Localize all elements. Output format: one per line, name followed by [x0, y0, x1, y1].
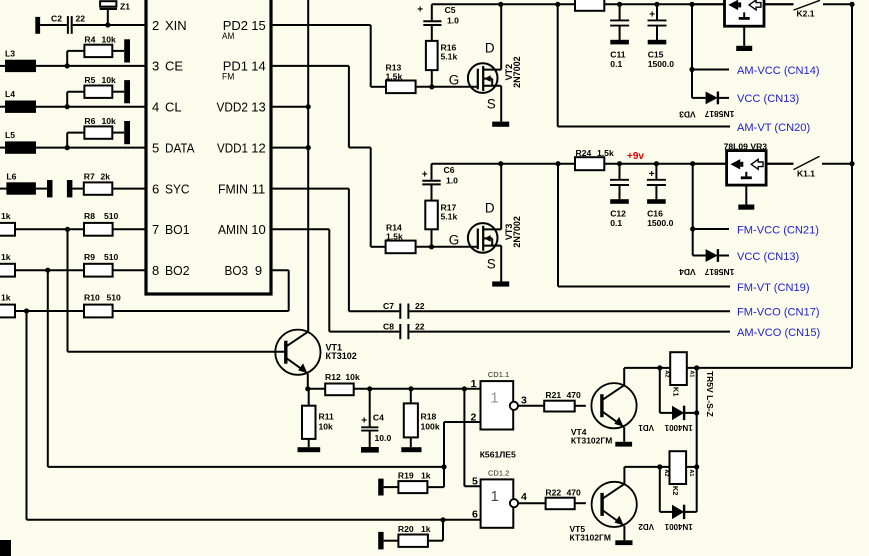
svg-text:15: 15 [251, 18, 265, 33]
connector plate (R20) [378, 532, 383, 550]
svg-text:L3: L3 [5, 48, 15, 58]
resistor R7 [84, 182, 113, 194]
svg-text:КТ3102: КТ3102 [326, 351, 357, 361]
wire K2 coil row right [686, 466, 697, 468]
svg-text:1.0: 1.0 [446, 176, 458, 186]
wire R10 row left [15, 310, 84, 312]
wire pin 2 lead [444, 421, 481, 423]
node rail/AM-VT tap [555, 2, 560, 7]
node R12/R18 node [408, 386, 413, 391]
svg-text:CD1.2: CD1.2 [488, 468, 509, 477]
wire gate 4 output [518, 502, 546, 504]
svg-text:1k: 1k [1, 211, 11, 221]
connector plate (R6) [124, 121, 130, 144]
svg-text:КТ3102ГМ: КТ3102ГМ [571, 435, 612, 445]
ground VR2 ground [736, 46, 752, 51]
svg-text:+: + [361, 415, 367, 426]
svg-text:510: 510 [104, 211, 119, 221]
capacitor C15 [648, 19, 667, 21]
resistor R9 [84, 264, 113, 277]
svg-text:Z1: Z1 [120, 2, 130, 12]
svg-text:0.1: 0.1 [610, 59, 622, 69]
resistor R8 [84, 223, 113, 236]
node Z1/XIN junction [105, 22, 110, 27]
wire C12 top lead [619, 164, 621, 180]
connector plate (R4) [124, 39, 130, 62]
svg-text:1.5k: 1.5k [386, 72, 403, 82]
svg-text:2: 2 [152, 18, 159, 33]
svg-text:R7: R7 [84, 172, 95, 182]
svg-text:1: 1 [490, 488, 498, 505]
wire R18 top lead [410, 389, 412, 404]
wire C2 to pin 2 XIN [73, 24, 146, 26]
resistor R14 [386, 241, 416, 254]
svg-text:5.1k: 5.1k [441, 212, 458, 222]
svg-text:R24: R24 [576, 148, 592, 158]
svg-text:D: D [485, 41, 495, 56]
wire R9 to pin 8 BO2 [113, 269, 146, 271]
svg-text:R4: R4 [84, 34, 95, 44]
svg-text:9: 9 [255, 263, 262, 278]
wire C6 to FM rail [431, 164, 433, 180]
wire K1.1 to right rail [822, 163, 852, 165]
diode VD3 (1N5817) [706, 92, 718, 105]
wire L6 to C plate [36, 188, 47, 190]
wire L6 lead-in [0, 188, 8, 190]
wire FM-VCC branch vertical [692, 164, 694, 256]
svg-text:1.5k: 1.5k [597, 148, 614, 158]
wire VD2 cathode lead [684, 511, 697, 513]
ground C12 ground [610, 199, 629, 204]
node rail/C12 tap [617, 161, 622, 166]
svg-text:1.0: 1.0 [447, 16, 459, 26]
svg-text:R20: R20 [398, 524, 414, 534]
svg-text:VDD2: VDD2 [217, 100, 249, 115]
wire C15 top lead [656, 4, 658, 20]
node K2 right node [694, 464, 699, 469]
wire PD1 jog [349, 147, 371, 149]
wire R5 right lead [112, 91, 124, 93]
node K1 right node [694, 365, 699, 370]
svg-text:S: S [487, 97, 496, 112]
svg-text:1.5k: 1.5k [386, 232, 403, 242]
node R12/C4 node [367, 386, 372, 391]
svg-text:SYC: SYC [165, 181, 190, 196]
resistor R12 [325, 384, 354, 396]
crystal Z1 [100, 1, 116, 6]
wire VT4 collector lead [623, 368, 625, 385]
svg-text:D: D [485, 200, 495, 215]
svg-text:1k: 1k [421, 524, 431, 534]
svg-text:3: 3 [521, 395, 527, 407]
node pin6/R20 node [440, 517, 445, 522]
svg-text:C12: C12 [610, 209, 626, 219]
wire VT4 emitter lead [623, 427, 625, 442]
wire L5 to pin [36, 147, 146, 149]
wire pin 14 PD1 out [271, 65, 349, 67]
wire R10 feed down [26, 311, 28, 520]
wire VD3 cathode lead [719, 97, 729, 99]
wire VT3 source [500, 246, 502, 282]
resistor R20 [398, 535, 428, 547]
wire VT3 drain [500, 164, 502, 230]
svg-text:C6: C6 [444, 165, 455, 175]
wire right supply rail [851, 4, 853, 368]
wire VR3 out to switch [766, 163, 793, 165]
switch contact K2.1 [794, 0, 821, 10]
wire PD2 to R13 [371, 86, 386, 88]
connector plate (R5) [124, 80, 130, 103]
svg-text:C7: C7 [383, 301, 394, 311]
resistor R5 [84, 86, 112, 98]
svg-text:C15: C15 [648, 49, 664, 59]
wire VD1 anode lead [660, 412, 672, 414]
svg-text:R11: R11 [319, 412, 335, 422]
wire R16 bottom lead [431, 70, 433, 87]
wire FM-VCC lead [693, 228, 729, 230]
wire C5 to AM rail [431, 4, 433, 20]
inductor L6 [6, 182, 36, 194]
wire K1 coil row left [624, 367, 670, 369]
svg-text:C2: C2 [51, 14, 62, 24]
CD1.2 output bubble [510, 499, 518, 507]
svg-text:6: 6 [472, 509, 478, 521]
svg-text:2N7002: 2N7002 [512, 216, 522, 248]
wire VD2 left drop [659, 467, 661, 512]
svg-text:K1: K1 [672, 387, 681, 397]
transistor VT4 (КТ3102ГМ NPN) [591, 383, 636, 428]
inductor L4 [5, 101, 36, 113]
svg-text:1N4001: 1N4001 [664, 423, 693, 432]
ground VR3 ground [738, 205, 754, 210]
svg-text:100k: 100k [421, 422, 440, 432]
wire L4 to pin [36, 106, 146, 108]
svg-text:510: 510 [104, 252, 119, 262]
wire R21 to VT4 base [575, 405, 586, 407]
resistor R6 [84, 126, 112, 138]
wire R4 tap vertical [66, 51, 68, 66]
wire C11 bottom lead [619, 26, 621, 41]
svg-text:R12: R12 [325, 372, 341, 382]
svg-text:DATA: DATA [165, 140, 195, 155]
svg-text:AM-VT (CN20): AM-VT (CN20) [737, 122, 810, 134]
svg-text:R8: R8 [84, 211, 95, 221]
svg-text:C11: C11 [610, 49, 626, 59]
svg-text:1: 1 [490, 390, 498, 407]
wire FM-VT lead [558, 286, 730, 288]
capacitor C16 [647, 179, 666, 181]
wire AM-VT branch vertical [557, 4, 559, 126]
switch contact K1.1 [794, 156, 820, 169]
svg-text:5.1k: 5.1k [441, 52, 458, 62]
node rail/VT2 drain [498, 2, 503, 7]
diode VD2 (1N4001) [672, 505, 684, 519]
ground C11 ground [610, 40, 629, 45]
wire C plate to R7 [72, 188, 83, 190]
svg-text:C5: C5 [445, 5, 456, 15]
svg-text:10.0: 10.0 [375, 433, 392, 443]
svg-text:K2: K2 [671, 486, 680, 496]
resistor R10 [84, 305, 113, 318]
wire R9 feed to gate pin2 [48, 466, 443, 468]
wire PD1 to R14 [371, 246, 386, 248]
svg-text:3: 3 [152, 59, 159, 74]
resistor R22 [546, 498, 575, 510]
wire L3 to pin [36, 65, 146, 67]
svg-text:L4: L4 [5, 89, 15, 99]
svg-text:CD1.1: CD1.1 [488, 370, 509, 379]
svg-text:VD3: VD3 [679, 110, 696, 120]
svg-text:470: 470 [567, 488, 582, 498]
svg-text:470: 470 [567, 390, 582, 400]
svg-text:VDD1: VDD1 [217, 140, 248, 155]
logic gate CD1.1 (inverter) [481, 381, 514, 429]
wire R16 top lead (C5) [431, 26, 433, 41]
wire R11 bottom lead [308, 439, 310, 447]
svg-text:14: 14 [251, 59, 265, 74]
resistor R17 [425, 201, 438, 230]
svg-text:+9v: +9v [627, 151, 644, 162]
node R6 tap junction [65, 145, 70, 150]
svg-text:A2: A2 [664, 370, 670, 377]
wire R11 top lead [308, 389, 310, 406]
wire R6 left lead [67, 132, 84, 134]
wire VR2 out to switch [764, 3, 794, 5]
svg-text:1k: 1k [1, 252, 11, 262]
wire C4 bottom lead [369, 431, 371, 448]
svg-text:11: 11 [252, 181, 266, 196]
svg-text:C16: C16 [647, 209, 663, 219]
svg-text:FM: FM [222, 72, 234, 82]
node rail/VT3 drain [498, 161, 503, 166]
wire pin 12 VDD1 stub [271, 147, 308, 149]
svg-text:C8: C8 [383, 322, 394, 332]
svg-text:6: 6 [152, 181, 159, 196]
resistor R19 [398, 481, 427, 493]
wire Z1 to XIN node [107, 9, 109, 25]
wire FM +9v rail (right) [604, 163, 793, 165]
wire VD4 cathode lead [719, 255, 729, 257]
node R13/R16 junction [429, 84, 434, 89]
svg-text:+: + [422, 170, 428, 181]
svg-text:1N4001: 1N4001 [664, 522, 693, 531]
wire L4 row lead-in [0, 106, 7, 108]
transistor VT5 (КТ3102ГМ NPN) [592, 482, 637, 527]
wire C8 to AM-VCO label [409, 331, 730, 333]
svg-text:4: 4 [521, 491, 527, 503]
wire R4 left lead [67, 50, 84, 52]
wire R22 to VT5 base [575, 502, 586, 504]
svg-text:S: S [487, 256, 496, 271]
svg-text:13: 13 [251, 100, 265, 115]
svg-text:R18: R18 [421, 412, 437, 422]
ground VT3 source ground [492, 281, 509, 286]
ground VT2 source ground [492, 122, 509, 127]
svg-text:AM: AM [222, 31, 234, 41]
resistor R18 [404, 403, 418, 437]
wire VDD vertical to VT1 collector [307, 0, 309, 332]
resistor R8L (edge, partial) [0, 223, 15, 236]
wire rail into VR3 [693, 163, 727, 165]
svg-text:BO3: BO3 [225, 263, 249, 278]
node AM-VCC node [689, 67, 694, 72]
node VT1 emitter/R12/R11 node [305, 386, 310, 391]
node VDD1 junction [306, 145, 311, 150]
svg-text:A2: A2 [663, 469, 669, 476]
svg-text:R19: R19 [398, 471, 414, 481]
svg-text:L5: L5 [5, 130, 15, 140]
wire R18 bottom lead [410, 437, 412, 447]
inductor L3 [5, 60, 36, 72]
capacitor C11 [610, 19, 629, 21]
wire C12 bottom lead [619, 185, 621, 200]
svg-text:1k: 1k [1, 293, 11, 303]
wire VD3 anode lead [692, 97, 706, 99]
svg-text:1500.0: 1500.0 [648, 59, 675, 69]
wire R4 right lead [112, 50, 124, 52]
wire R8 to pin 7 BO1 [113, 228, 146, 230]
wire VD4 anode lead [693, 255, 706, 257]
wire VT1 emitter lead [307, 374, 309, 389]
svg-text:VD2: VD2 [638, 522, 654, 531]
svg-text:K2.1: K2.1 [797, 9, 815, 19]
wire R17 bottom lead [431, 229, 433, 247]
wire K relay right bus [696, 368, 698, 512]
ground C15 ground [648, 40, 667, 45]
wire FM-VT branch vertical [557, 164, 559, 287]
svg-text:12: 12 [251, 140, 265, 155]
capacitor C3 (plate pair) [47, 180, 53, 197]
wire R6 tap vertical [66, 133, 68, 148]
wire R17 top lead (C6) [431, 185, 433, 201]
wire AMIN to C8 [329, 331, 399, 333]
wire VD2 anode lead [660, 511, 672, 513]
node R10 branch junction [24, 308, 29, 313]
wire AM +9v rail (left) [432, 3, 575, 5]
wire VT1 base horizontal [68, 351, 286, 353]
node rail/C16 tap [654, 161, 659, 166]
resistor R4 [84, 45, 112, 57]
transistor VT3 (2N7002 N-MOSFET) [468, 223, 498, 253]
svg-text:L6: L6 [6, 172, 16, 182]
resistor R16 [426, 41, 438, 70]
svg-text:1N5817: 1N5817 [704, 267, 734, 277]
svg-text:R9: R9 [84, 252, 95, 262]
voltage regulator VR3 78L09 [727, 151, 767, 186]
wire K2 coil row left [624, 466, 669, 468]
inductor (bottom-left, partial) [0, 540, 11, 556]
svg-text:FM-VT (CN19): FM-VT (CN19) [737, 282, 810, 294]
node rail/C15 tap [654, 2, 659, 7]
svg-text:FM-VCO (CN17): FM-VCO (CN17) [737, 307, 820, 319]
resistor R24 [575, 157, 604, 170]
wire pin 10 AMIN out [271, 228, 329, 230]
wire PD1 corner down [348, 66, 350, 148]
wire R12 output row [354, 388, 481, 390]
wire R10 feed to gate pin6 [27, 519, 481, 521]
svg-text:10k: 10k [102, 116, 117, 126]
wire R8 feed down to VT1 base [67, 229, 69, 351]
svg-text:A1: A1 [689, 370, 695, 377]
node VDD2 junction [306, 104, 311, 109]
ground VT4 emitter ground [615, 442, 632, 447]
wire AMIN corner down [328, 229, 330, 331]
capacitor C12 [610, 179, 629, 181]
svg-text:10k: 10k [102, 75, 117, 85]
svg-text:R6: R6 [84, 116, 95, 126]
svg-text:510: 510 [107, 293, 122, 303]
wire VR3 ground lead [745, 185, 747, 205]
connector plate (XIN input) [35, 17, 40, 34]
svg-text:1: 1 [471, 378, 477, 390]
wire VT2 drain [500, 4, 502, 69]
wire R8 row left [15, 228, 84, 230]
wire VD1 cathode lead [684, 412, 697, 414]
node K2 left node [657, 464, 662, 469]
svg-text:FMIN: FMIN [218, 181, 248, 196]
CD1.1 output bubble [510, 402, 518, 410]
node pin2/R9-feed node [441, 464, 446, 469]
svg-text:R21: R21 [545, 390, 561, 400]
svg-text:R5: R5 [84, 75, 95, 85]
svg-text:10: 10 [251, 222, 265, 237]
wire K1 coil row right [687, 367, 852, 369]
wire VT5 emitter lead [623, 526, 625, 540]
ground C4 ground [361, 447, 379, 453]
wire R13 to VT2 gate [416, 86, 478, 88]
wire pin5 branch drop [463, 389, 465, 487]
wire AM-VCC lead [692, 69, 729, 71]
wire L5 row lead-in [0, 147, 7, 149]
svg-text:XIN: XIN [165, 18, 187, 33]
wire R20 drop [442, 520, 444, 541]
diode VD4 (1N5817) [706, 249, 718, 262]
svg-text:22: 22 [415, 322, 425, 332]
wire VT2 source [500, 86, 502, 122]
wire pin 11 FMIN out [271, 188, 349, 190]
wire PD1 jog down [370, 148, 372, 247]
capacitor C8 [399, 324, 401, 339]
svg-text:КТ3102ГМ: КТ3102ГМ [570, 532, 611, 542]
svg-text:BO2: BO2 [165, 263, 190, 278]
svg-text:+: + [649, 10, 655, 21]
wire R10 to BO3 riser [113, 310, 289, 312]
resistor R21 [544, 401, 575, 412]
svg-text:78L09 VR3: 78L09 VR3 [724, 141, 768, 151]
svg-text:1N5817: 1N5817 [704, 109, 734, 119]
svg-text:AMIN: AMIN [218, 222, 248, 237]
svg-text:R22: R22 [545, 488, 561, 498]
logic gate CD1.2 (inverter) [481, 479, 514, 527]
svg-text:+: + [417, 4, 423, 15]
svg-text:AM-VCO (CN15): AM-VCO (CN15) [737, 327, 820, 339]
connector plate (R19) [378, 479, 383, 496]
svg-text:BO1: BO1 [165, 222, 190, 237]
resistor R13 [386, 81, 416, 94]
svg-text:4: 4 [152, 100, 159, 115]
svg-text:FM-VCC (CN21): FM-VCC (CN21) [737, 224, 819, 236]
ground C16 ground [647, 199, 666, 204]
svg-text:CE: CE [165, 59, 183, 74]
wire R14 to VT3 gate [416, 246, 478, 248]
wire C16 top lead [655, 164, 657, 180]
svg-text:K1.1: K1.1 [797, 169, 815, 179]
svg-text:22: 22 [415, 301, 425, 311]
svg-text:10k: 10k [319, 422, 334, 432]
capacitor C5 [423, 20, 441, 22]
svg-text:C4: C4 [373, 413, 384, 423]
transistor VT2 (2N7002 N-MOSFET) [468, 63, 498, 93]
